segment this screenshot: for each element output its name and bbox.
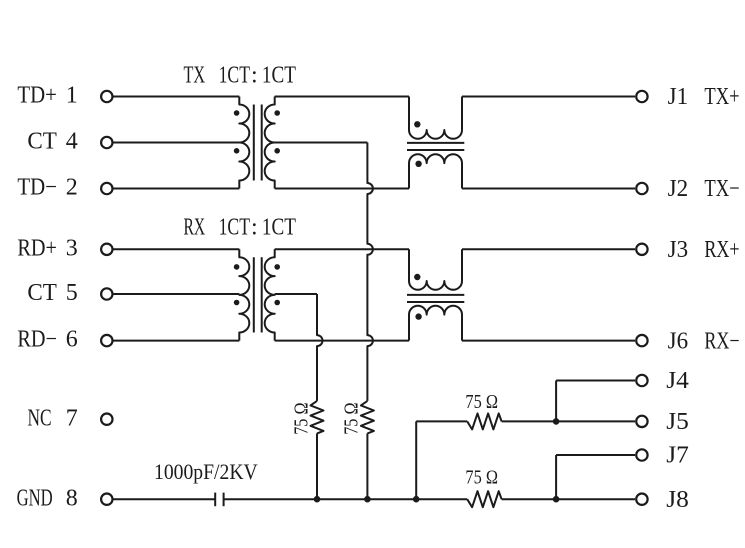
wire L2 to J6 (462, 340, 635, 342)
svg-text:TX+: TX+ (704, 84, 739, 110)
wire RD+3 to T2 (114, 248, 240, 250)
svg-text:3: 3 (66, 235, 78, 261)
svg-text:TX: TX (184, 62, 206, 88)
svg-text:4: 4 (66, 129, 78, 155)
svg-text:1000pF/2KV: 1000pF/2KV (154, 459, 258, 484)
wire node to J7 (555, 455, 557, 499)
svg-text:75 Ω: 75 Ω (465, 391, 498, 413)
svg-text:1CT: 1CT (219, 62, 251, 88)
wire R3 to J5 (502, 420, 635, 422)
wire TD+1 to T1 (114, 96, 240, 98)
pin J1 TX+ (636, 84, 739, 110)
svg-text:1CT: 1CT (262, 62, 296, 88)
svg-text:J8: J8 (666, 487, 689, 513)
wire T1 secondary top to L1 (275, 96, 409, 98)
wire GND line up to R3 (415, 421, 417, 499)
svg-text:RX: RX (184, 214, 206, 240)
pin J3 RX+ (636, 237, 739, 263)
svg-text:2: 2 (66, 175, 78, 201)
transformer T2 RX (234, 249, 280, 340)
svg-text:TD−: TD− (17, 175, 57, 201)
pin 8 GND (17, 485, 113, 511)
svg-text:NC: NC (28, 405, 52, 431)
wire T1 center tap (275, 142, 368, 144)
junction R1/GND (314, 496, 321, 503)
common-mode choke L1 (407, 97, 464, 189)
pin 5 CT (27, 280, 112, 306)
pin 4 CT (27, 129, 112, 155)
label R2 75 ohm (340, 403, 362, 435)
svg-text:J7: J7 (666, 443, 689, 469)
svg-text:75 Ω: 75 Ω (290, 403, 312, 435)
transformer T1 TX (234, 97, 280, 189)
svg-text:6: 6 (66, 327, 78, 353)
common-mode choke L2 (407, 249, 464, 340)
label TX 1CT:1CT (184, 62, 297, 88)
junction J7 branch/GND (553, 496, 560, 503)
label R3 75 ohm (465, 391, 498, 413)
wire T2 secondary top to L2 (275, 248, 409, 250)
capacitor C1 1000pF/2KV (215, 493, 223, 507)
wire C1 to R4 (224, 498, 468, 500)
pin J7 (636, 443, 689, 469)
svg-text:5: 5 (66, 280, 78, 306)
svg-text:J5: J5 (666, 409, 689, 435)
svg-text:J6: J6 (668, 328, 689, 354)
wire T1 secondary bottom to L1 (275, 188, 409, 190)
pin 1 TD+ (17, 83, 112, 109)
svg-text:GND: GND (17, 485, 53, 511)
label RX 1CT:1CT (184, 214, 297, 240)
label R4 75 ohm (465, 467, 498, 489)
junction J4 branch/R3 (553, 418, 560, 425)
pin J2 TX- (636, 176, 739, 202)
wire TD-2 to T1 (114, 188, 240, 190)
wire L1 to J2 (462, 188, 635, 190)
svg-text:RX−: RX− (704, 328, 739, 354)
wire L1 to J1 (462, 96, 635, 98)
pin J6 RX- (636, 328, 739, 354)
svg-text:7: 7 (66, 405, 78, 431)
junction R2/GND (364, 496, 371, 503)
pin 3 RD+ (17, 235, 112, 261)
svg-text:RX+: RX+ (704, 237, 739, 263)
resistor R1 75ohm vertical (311, 401, 324, 434)
pin J5 (636, 409, 689, 435)
svg-text:J2: J2 (668, 176, 689, 202)
pin 6 RD- (17, 327, 112, 353)
wire T2 secondary bottom to L2 (275, 340, 409, 342)
wire T2 center tap (275, 293, 317, 295)
pin J8 (636, 487, 689, 513)
resistor R3 75ohm horizontal (467, 413, 501, 429)
svg-text:75 Ω: 75 Ω (340, 403, 362, 435)
wire CT5 to T2 (114, 293, 240, 295)
svg-text:CT: CT (27, 129, 57, 155)
svg-text:1CT: 1CT (262, 214, 296, 240)
wire node to J4 (555, 381, 557, 422)
svg-text:RD+: RD+ (17, 235, 57, 261)
svg-text:J4: J4 (666, 368, 689, 394)
svg-text:75 Ω: 75 Ω (465, 467, 498, 489)
wire R1 to GND line (316, 433, 318, 499)
wire RD-6 to T2 (114, 340, 240, 342)
wire CT4 to T1 (114, 142, 240, 144)
svg-text:J3: J3 (668, 237, 689, 263)
label R1 75 ohm (290, 403, 312, 435)
wire GND8 to C1 (114, 498, 216, 500)
wire L2 to J3 (462, 248, 635, 250)
svg-text:8: 8 (66, 485, 78, 511)
svg-text:RD−: RD− (17, 327, 57, 353)
svg-text::: : (251, 62, 258, 88)
svg-text:TD+: TD+ (17, 83, 57, 109)
pin 2 TD- (17, 175, 112, 201)
svg-text:CT: CT (27, 280, 57, 306)
pin 7 NC (28, 405, 113, 431)
wire T2 center tap down to R1 (hop) (317, 294, 323, 401)
svg-text::: : (251, 214, 258, 240)
wire T1 center tap down to R2 (hops) (367, 143, 373, 401)
svg-text:J1: J1 (668, 84, 689, 110)
wire R2 to GND line (366, 433, 368, 499)
pin J4 (636, 368, 689, 394)
wire R4 to J8 (502, 498, 635, 500)
resistor R4 75ohm on GND line (467, 491, 501, 507)
resistor R2 75ohm vertical (361, 401, 374, 434)
svg-text:1: 1 (66, 83, 78, 109)
svg-text:TX−: TX− (704, 176, 739, 202)
junction R3 branch/GND (413, 496, 420, 503)
label 1000pF/2KV (154, 459, 258, 484)
svg-text:1CT: 1CT (219, 214, 251, 240)
